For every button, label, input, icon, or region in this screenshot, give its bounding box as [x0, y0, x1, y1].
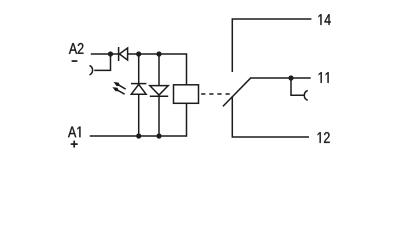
terminal label 14 — [318, 14, 330, 25]
junction dot freewheel branch top — [156, 51, 161, 56]
junction dot LED branch bottom — [136, 133, 141, 138]
wire 11 socket branch — [291, 78, 305, 95]
freewheel diode V2 cathode bar — [150, 95, 168, 97]
wire bottom rail — [90, 135, 187, 137]
A2 polarity minus — [72, 60, 78, 62]
relay coil K1 — [174, 85, 199, 104]
changeover contact arm — [223, 78, 251, 106]
wire to terminal 14 — [232, 19, 311, 72]
LED arrow 2 shaft — [118, 90, 125, 94]
junction dot LED branch top — [136, 51, 141, 56]
freewheel diode V2 triangle — [150, 86, 168, 95]
terminal label 12 — [318, 132, 330, 143]
wire coil branch upper — [186, 53, 188, 85]
diode D1 reverse-polarity protection, cathode bar — [118, 47, 120, 61]
mechanical link dashed — [201, 93, 230, 95]
wire top rail diode to coil corner — [128, 53, 187, 55]
wire LED branch lower — [138, 94, 140, 136]
wire to terminal 12 — [232, 96, 309, 137]
diode D1 triangle — [119, 48, 127, 60]
LED triangle — [131, 84, 146, 94]
LED cathode bar — [131, 83, 146, 85]
junction dot A2 node — [108, 51, 113, 56]
terminal label A2 — [69, 43, 84, 54]
socket contact at 11 — [304, 91, 307, 101]
junction dot freewheel branch bottom — [156, 133, 161, 138]
terminal label 11 — [319, 72, 329, 83]
LED arrow 1 head — [114, 82, 121, 86]
wire coil branch lower — [186, 103, 188, 136]
LED arrow 1 shaft — [119, 85, 126, 89]
wire A2 lead — [91, 53, 111, 55]
socket contact at A2 — [90, 65, 93, 75]
LED arrow 2 head — [112, 87, 119, 91]
wire freewheel branch upper — [158, 54, 160, 86]
junction dot on 11 wire — [288, 75, 293, 80]
terminal label A1 — [68, 127, 80, 138]
wire A2 socket branch — [94, 54, 110, 70]
wire contact arm to terminal 11 — [250, 77, 311, 79]
wire freewheel branch lower — [158, 96, 160, 136]
A1 polarity plus — [71, 141, 78, 148]
wire top rail dot1 to diode — [111, 53, 119, 55]
wire LED branch upper — [138, 54, 140, 84]
